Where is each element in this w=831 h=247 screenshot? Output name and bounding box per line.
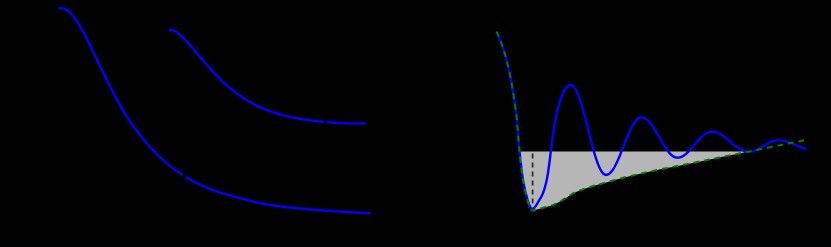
right vertical dashed marker bbox=[532, 154, 534, 209]
label gap on curve 2 bbox=[324, 117, 327, 127]
right blue curve bbox=[497, 33, 806, 210]
right gray region bbox=[519, 152, 746, 211]
left curve 2 bbox=[170, 30, 365, 124]
label gap on curve 1 bbox=[183, 169, 186, 180]
left curve 1 bbox=[60, 8, 370, 213]
right green dashed curve bbox=[497, 32, 809, 211]
